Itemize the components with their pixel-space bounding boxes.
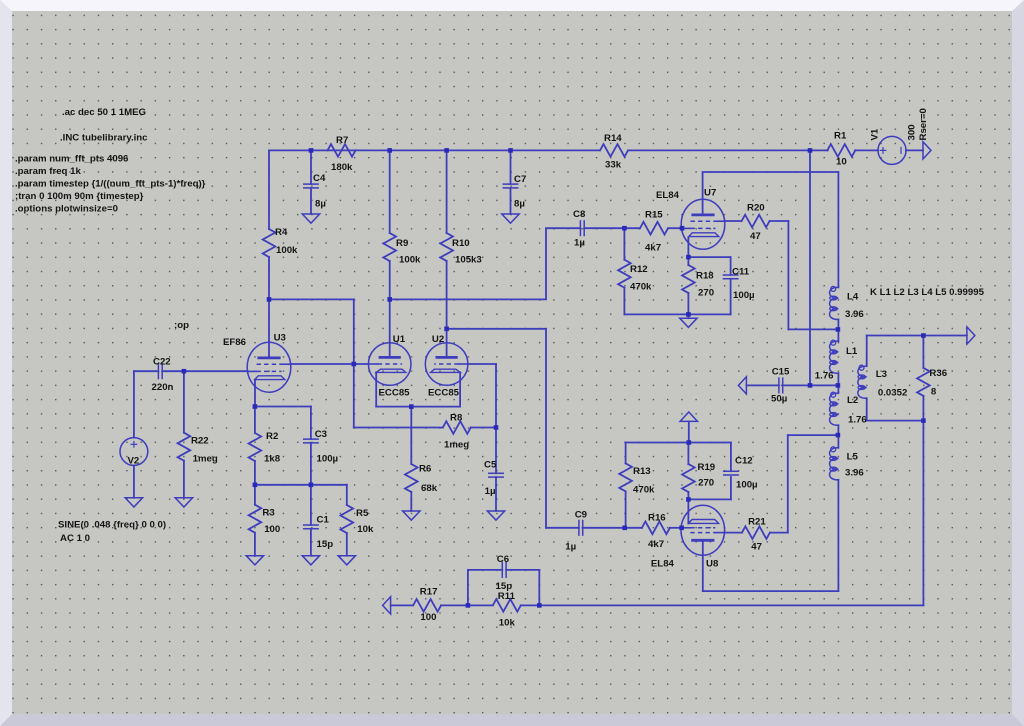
svg-text:4k7: 4k7 [645,242,661,253]
svg-text:10k: 10k [499,617,516,628]
svg-text:47: 47 [751,541,762,552]
svg-text:L1: L1 [846,346,858,357]
svg-text:R17: R17 [420,586,438,597]
svg-text:C3: C3 [315,429,327,440]
svg-text:;tran 0 100m 90m {timestep}: ;tran 0 100m 90m {timestep} [15,191,144,202]
svg-text:1µ: 1µ [574,238,585,249]
svg-text:R12: R12 [630,264,648,275]
svg-text:.options plotwinsize=0: .options plotwinsize=0 [15,204,118,215]
svg-text:R19: R19 [698,462,716,473]
svg-text:470k: 470k [630,281,652,292]
svg-text:1meg: 1meg [193,453,218,464]
svg-text:100µ: 100µ [733,290,755,301]
svg-text:R18: R18 [696,271,714,282]
svg-text:L3: L3 [876,369,887,380]
svg-text:8: 8 [931,387,937,398]
svg-text:R2: R2 [266,431,278,442]
svg-text:;op: ;op [174,320,189,331]
svg-text:3.96: 3.96 [845,468,864,479]
svg-text:1.76: 1.76 [848,415,867,426]
svg-text:1k8: 1k8 [264,454,281,465]
svg-text:R21: R21 [748,516,766,527]
svg-text:3.96: 3.96 [845,309,864,320]
svg-text:10k: 10k [357,524,374,535]
svg-text:R1: R1 [834,131,847,142]
svg-text:U7: U7 [704,188,716,199]
svg-text:C8: C8 [573,209,586,220]
svg-text:.ac dec 50 1 1MEG: .ac dec 50 1 1MEG [62,107,146,118]
svg-text:100k: 100k [276,245,298,256]
svg-text:15p: 15p [317,539,334,550]
svg-text:L2: L2 [847,395,858,406]
svg-text:R5: R5 [356,508,369,519]
svg-text:0.0352: 0.0352 [878,387,907,398]
svg-text:SINE(0 .048 {freq} 0 0 0): SINE(0 .048 {freq} 0 0 0) [58,519,166,530]
svg-text:1.76: 1.76 [815,370,834,381]
svg-text:C1: C1 [317,514,330,525]
svg-text:4k7: 4k7 [648,539,664,550]
svg-text:V2: V2 [128,456,140,467]
svg-text:100: 100 [420,612,436,623]
svg-text:R16: R16 [648,513,666,524]
svg-text:R7: R7 [336,135,348,146]
svg-text:300: 300 [907,124,918,140]
svg-text:.param freq 1k: .param freq 1k [15,166,81,177]
svg-text:R3: R3 [262,508,274,519]
svg-text:C12: C12 [735,456,753,467]
svg-text:R22: R22 [191,435,209,446]
svg-text:K L1 L2 L3 L4 L5 0.99995: K L1 L2 L3 L4 L5 0.99995 [870,287,985,298]
svg-text:270: 270 [698,288,714,299]
svg-text:1meg: 1meg [444,439,469,450]
svg-text:105k3: 105k3 [455,255,482,266]
svg-text:100: 100 [264,524,280,535]
svg-text:100µ: 100µ [736,480,758,491]
svg-text:C9: C9 [575,510,587,521]
svg-text:EL84: EL84 [656,190,680,201]
svg-text:EL84: EL84 [651,559,675,570]
svg-text:C22: C22 [153,356,171,367]
svg-text:C15: C15 [772,366,790,377]
svg-text:V1: V1 [870,128,881,140]
svg-text:R13: R13 [633,466,651,477]
svg-text:1µ: 1µ [565,541,576,552]
svg-text:470k: 470k [633,485,655,496]
svg-text:1µ: 1µ [485,486,496,497]
svg-text:U3: U3 [274,333,286,344]
svg-text:C6: C6 [497,554,509,565]
svg-text:100k: 100k [399,255,421,266]
svg-text:R4: R4 [275,227,288,238]
svg-text:U8: U8 [706,559,719,570]
svg-text:R6: R6 [419,464,431,475]
svg-text:R14: R14 [604,133,622,144]
svg-text:EF86: EF86 [223,337,246,348]
svg-text:C11: C11 [732,266,750,277]
svg-text:10: 10 [836,157,847,168]
svg-text:U2: U2 [432,334,444,345]
svg-text:L4: L4 [847,292,859,303]
svg-text:R36: R36 [929,368,947,379]
svg-text:C7: C7 [514,174,526,185]
svg-text:R20: R20 [747,203,765,214]
svg-text:L5: L5 [847,452,859,463]
svg-text:47: 47 [750,231,761,242]
svg-text:8µ: 8µ [514,199,525,210]
svg-text:33k: 33k [605,160,622,171]
svg-text:C4: C4 [313,173,326,184]
svg-text:R11: R11 [498,591,516,602]
svg-text:50µ: 50µ [771,394,787,405]
svg-text:.INC tubelibrary.inc: .INC tubelibrary.inc [60,132,148,143]
svg-text:.param num_fft_pts 4096: .param num_fft_pts 4096 [15,154,128,165]
svg-text:C5: C5 [484,460,497,471]
svg-text:AC 1 0: AC 1 0 [60,533,90,544]
svg-text:R10: R10 [452,238,470,249]
svg-text:R15: R15 [645,210,663,221]
svg-text:220n: 220n [152,382,174,393]
svg-text:8µ: 8µ [315,199,326,210]
svg-text:R8: R8 [450,413,463,424]
svg-text:R9: R9 [396,238,408,249]
svg-text:180k: 180k [331,162,353,173]
svg-text:U1: U1 [393,334,406,345]
svg-text:.param timestep {1/((num_fft_p: .param timestep {1/((num_fft_pts-1)*freq… [15,179,206,190]
svg-text:68k: 68k [421,483,438,494]
svg-text:Rser=0: Rser=0 [918,108,929,140]
svg-text:ECC85: ECC85 [428,387,460,398]
svg-text:270: 270 [698,477,714,488]
svg-text:ECC85: ECC85 [379,387,411,398]
svg-text:100µ: 100µ [317,454,339,465]
